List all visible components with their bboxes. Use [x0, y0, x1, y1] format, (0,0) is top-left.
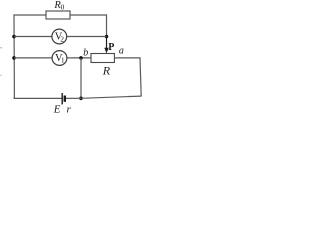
- node: left junction upper: [12, 35, 16, 39]
- wire: V1 branch right to b: [67, 57, 91, 59]
- svg-text:2: 2: [60, 35, 64, 44]
- battery E r: long plate: [61, 93, 63, 104]
- node: junction at slider top: [105, 35, 109, 39]
- svg-text:E: E: [53, 103, 61, 115]
- svg-text:0: 0: [61, 3, 65, 12]
- voltmeter V2: [52, 29, 67, 44]
- wire: right-top vertical down to node P: [106, 14, 108, 36]
- svg-text:r: r: [67, 103, 72, 115]
- wire: top left to R0: [13, 14, 46, 16]
- wire: rheostat a lead right: [114, 57, 140, 59]
- wire: bottom left to battery: [13, 97, 62, 99]
- rheostat R box: [91, 54, 114, 63]
- node: left junction lower: [12, 56, 16, 60]
- svg-text:1: 1: [61, 56, 65, 65]
- svg-text:P: P: [108, 42, 114, 53]
- svg-text:R: R: [102, 64, 111, 78]
- wire: V1 branch left: [14, 57, 52, 59]
- wire: R0 to top-right corner: [70, 14, 107, 16]
- slider arrow P: [106, 37, 108, 49]
- edge artifact tick lower: [0, 74, 2, 76]
- resistor R0: [46, 11, 70, 19]
- wire: V2 branch right: [67, 36, 107, 38]
- wire: V2 branch left: [14, 36, 52, 38]
- svg-text:a: a: [119, 45, 124, 56]
- wire: battery to bottom right: [66, 97, 81, 99]
- voltmeter V1: [52, 51, 67, 66]
- battery E r: short thick plate: [64, 96, 66, 102]
- wire: bottom right sloped: [81, 96, 141, 98]
- node: junction b: [79, 56, 83, 60]
- svg-text:b: b: [83, 47, 88, 58]
- wire: vertical b to bottom: [80, 58, 82, 99]
- wire: right vertical: [140, 58, 141, 96]
- node: junction bottom: [79, 97, 83, 101]
- edge artifact tick upper: [0, 47, 2, 49]
- wire: left vertical: [13, 15, 15, 99]
